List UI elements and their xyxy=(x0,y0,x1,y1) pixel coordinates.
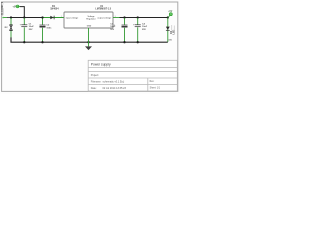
node junction bottom GND xyxy=(87,41,89,43)
title block xyxy=(88,60,177,91)
svg-text:Filename:: Filename: xyxy=(91,81,102,84)
node junction at LED branch xyxy=(167,16,169,18)
LED D2 xyxy=(166,18,176,42)
wire U1 ground pin xyxy=(88,28,90,42)
svg-text:25V: 25V xyxy=(142,29,146,31)
svg-text:16V: 16V xyxy=(110,29,114,31)
power flag +9V xyxy=(12,5,20,9)
wire top rail right xyxy=(120,17,168,19)
wire +9V to rail xyxy=(20,7,24,18)
node junction bottom C4 xyxy=(137,41,139,43)
svg-text:GND: GND xyxy=(87,26,92,28)
svg-text:input voltage: input voltage xyxy=(66,16,79,19)
power flag +5V xyxy=(168,11,173,18)
node junction at C2 top xyxy=(41,16,43,18)
svg-text:25V: 25V xyxy=(29,29,33,31)
svg-text:Rev:: Rev: xyxy=(150,81,155,83)
svg-text:1: 1 xyxy=(61,16,62,18)
wire U1 output pin xyxy=(113,17,120,19)
svg-text:1N4004: 1N4004 xyxy=(50,8,59,11)
connector J1 xyxy=(1,1,11,18)
svg-text:Date:: Date: xyxy=(91,87,97,90)
node junction at C3 top xyxy=(123,16,125,18)
svg-text:schematic v0.1.5(c): schematic v0.1.5(c) xyxy=(103,81,125,84)
svg-text:Regulator: Regulator xyxy=(86,18,96,21)
svg-text:RV: RV xyxy=(5,27,9,29)
voltage regulator U1 xyxy=(61,5,116,28)
capacitor C3 xyxy=(110,18,127,42)
svg-text:100n: 100n xyxy=(46,27,52,29)
capacitor C2 xyxy=(40,18,53,42)
svg-text:Power supply: Power supply xyxy=(91,63,111,67)
node junction bottom C1 xyxy=(23,41,25,43)
svg-text:LM78M05T-1.5: LM78M05T-1.5 xyxy=(95,9,111,11)
capacitor C4 xyxy=(133,18,148,42)
node junction bottom C2 xyxy=(41,41,43,43)
node junction at C4 top xyxy=(137,16,139,18)
wire top rail left xyxy=(11,17,46,19)
svg-text:Project:: Project: xyxy=(91,74,99,77)
wire diode pins xyxy=(44,17,64,19)
svg-text:02 Jul 2014 13:35:23: 02 Jul 2014 13:35:23 xyxy=(103,87,127,90)
svg-text:Sheet: 1/1: Sheet: 1/1 xyxy=(150,86,161,89)
node junction left T xyxy=(10,16,12,18)
ground xyxy=(85,42,92,50)
capacitor C1 xyxy=(20,18,35,42)
wire bottom rail xyxy=(11,37,168,42)
node junction at C1 top xyxy=(23,16,25,18)
svg-text:output voltage: output voltage xyxy=(97,16,112,19)
diode D1 xyxy=(50,5,59,19)
varistor RV1 xyxy=(5,18,13,38)
node junction bottom C3 xyxy=(123,41,125,43)
